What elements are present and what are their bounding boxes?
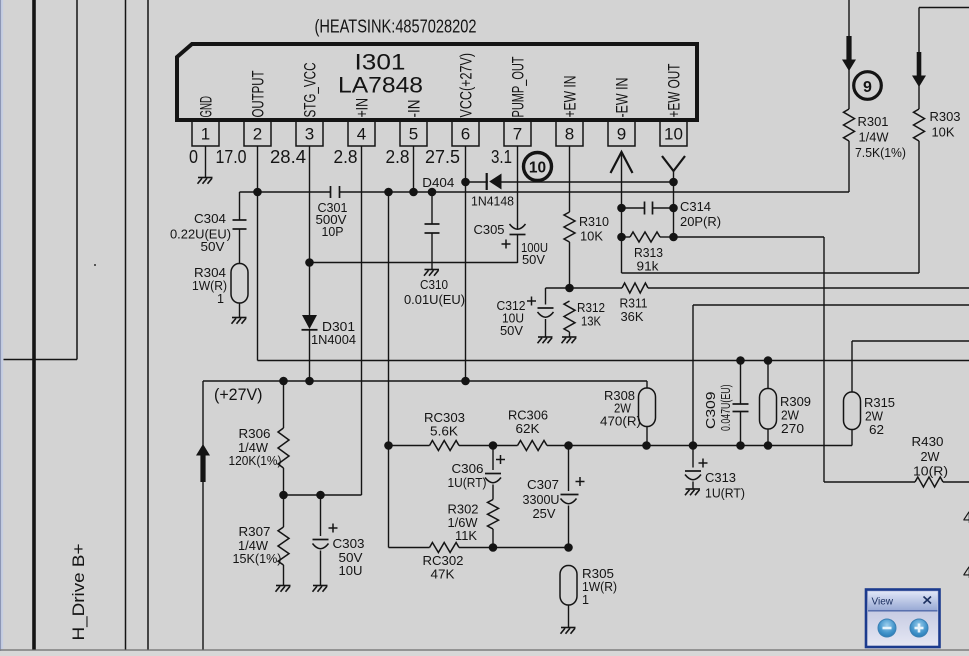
svg-text:4: 4 [357,125,366,144]
svg-text:15K(1%): 15K(1%) [233,552,282,566]
svg-text:270: 270 [781,422,804,436]
svg-text:10K: 10K [580,230,604,244]
svg-text:C310: C310 [420,278,448,292]
svg-text:9: 9 [617,125,626,144]
svg-text:10P: 10P [322,225,344,239]
svg-text:GND: GND [197,96,215,118]
svg-text:10K: 10K [932,126,956,140]
svg-text:10U: 10U [339,564,363,578]
svg-text:R305: R305 [582,567,614,581]
svg-text:R301: R301 [858,115,889,129]
svg-text:20P(R): 20P(R) [680,215,721,229]
svg-text:2: 2 [253,125,262,144]
svg-text:1W(R): 1W(R) [582,580,617,594]
svg-text:-EW IN: -EW IN [613,78,631,118]
svg-text:3: 3 [305,125,314,144]
svg-text:-IN: -IN [405,100,423,118]
svg-text:R306: R306 [239,427,271,441]
svg-text:1/4W: 1/4W [238,441,268,455]
svg-text:13K: 13K [581,315,602,329]
svg-text:50V: 50V [522,253,546,267]
svg-text:C314: C314 [680,200,711,214]
svg-text:50V: 50V [201,240,226,254]
svg-text:1N4004: 1N4004 [311,333,356,347]
svg-text:(+27V): (+27V) [214,385,263,404]
svg-text:C304: C304 [194,212,226,226]
svg-text:1: 1 [217,292,224,306]
svg-text:2W: 2W [921,450,940,464]
svg-text:0.01U(EU): 0.01U(EU) [404,293,465,307]
svg-text:1W(R): 1W(R) [192,279,227,293]
svg-text:RC302: RC302 [423,554,464,568]
svg-text:27.5: 27.5 [425,147,460,167]
svg-text:RC306: RC306 [508,409,548,423]
svg-text:I301: I301 [355,50,406,75]
svg-text:6: 6 [461,125,470,144]
svg-text:1N4148: 1N4148 [471,195,514,209]
svg-text:R310: R310 [579,215,609,229]
svg-text:R313: R313 [634,246,663,260]
svg-text:C313: C313 [705,471,736,485]
svg-text:(HEATSINK:4857028202: (HEATSINK:4857028202 [315,17,477,37]
svg-text:2W: 2W [614,402,631,416]
svg-text:LA7848: LA7848 [338,73,423,98]
svg-text:5: 5 [409,125,418,144]
svg-text:1: 1 [582,593,589,607]
svg-text:62K: 62K [516,422,541,436]
svg-text:PUMP_OUT: PUMP_OUT [509,57,527,118]
svg-text:D301: D301 [322,320,355,334]
svg-text:1/4W: 1/4W [238,539,268,553]
svg-text:50V: 50V [500,324,524,338]
svg-text:10: 10 [529,160,546,177]
svg-text:47K: 47K [431,568,456,582]
svg-text:H_Drive B+: H_Drive B+ [70,544,88,641]
svg-text:17.0: 17.0 [216,147,247,167]
svg-text:50V: 50V [339,551,364,565]
svg-text:2.8: 2.8 [386,147,410,167]
svg-text:0.047U(EU): 0.047U(EU) [719,385,733,432]
svg-text:R315: R315 [864,396,895,410]
svg-text:8: 8 [565,125,574,144]
svg-text:C303: C303 [333,537,365,551]
svg-text:VCC(+27V): VCC(+27V) [457,53,475,118]
svg-text:C306: C306 [452,462,484,476]
svg-text:10: 10 [664,125,683,144]
svg-text:4: 4 [963,564,969,582]
svg-text:C307: C307 [527,478,559,492]
svg-text:R312: R312 [577,301,605,315]
svg-text:+EW IN: +EW IN [561,76,579,118]
svg-text:R311: R311 [620,297,648,311]
svg-text:R309: R309 [780,395,811,409]
svg-text:D404: D404 [422,176,454,190]
svg-text:3.1: 3.1 [491,147,512,167]
svg-text:10(R): 10(R) [913,465,948,479]
svg-text:1: 1 [201,125,210,144]
svg-text:5.6K: 5.6K [430,425,459,439]
svg-text:1/6W: 1/6W [448,516,478,530]
svg-text:1/4W: 1/4W [859,131,889,145]
svg-text:R303: R303 [930,110,961,124]
svg-text:2W: 2W [781,409,799,423]
svg-text:STG_VCC: STG_VCC [301,62,319,117]
svg-text:4: 4 [963,509,969,527]
svg-text:1U(RT): 1U(RT) [705,487,745,501]
svg-text:+IN: +IN [353,98,371,118]
svg-text:1U(RT): 1U(RT) [448,476,487,490]
svg-text:RC303: RC303 [424,411,465,425]
svg-text:28.4: 28.4 [270,147,306,167]
svg-text:3300U: 3300U [523,493,560,507]
svg-text:+EW OUT: +EW OUT [665,64,683,118]
svg-text:120K(1%): 120K(1%) [229,454,282,468]
svg-text:R304: R304 [194,266,226,280]
svg-text:2W: 2W [865,410,883,424]
svg-text:R302: R302 [448,503,479,517]
svg-text:11K: 11K [455,529,478,543]
svg-text:9: 9 [863,79,872,96]
svg-text:62: 62 [869,423,884,437]
svg-text:0: 0 [189,147,198,167]
svg-text:2.8: 2.8 [334,147,358,167]
svg-text:470(R): 470(R) [600,415,641,429]
svg-text:OUTPUT: OUTPUT [249,71,267,118]
svg-text:C309: C309 [704,391,718,429]
svg-text:7.5K(1%): 7.5K(1%) [855,146,906,160]
svg-text:C305: C305 [474,223,505,237]
svg-text:R307: R307 [239,525,271,539]
svg-text:View: View [872,597,894,608]
svg-text:36K: 36K [621,310,645,324]
svg-text:7: 7 [513,125,522,144]
svg-text:91k: 91k [637,260,660,274]
svg-text:R430: R430 [912,435,944,449]
svg-text:25V: 25V [533,507,557,521]
